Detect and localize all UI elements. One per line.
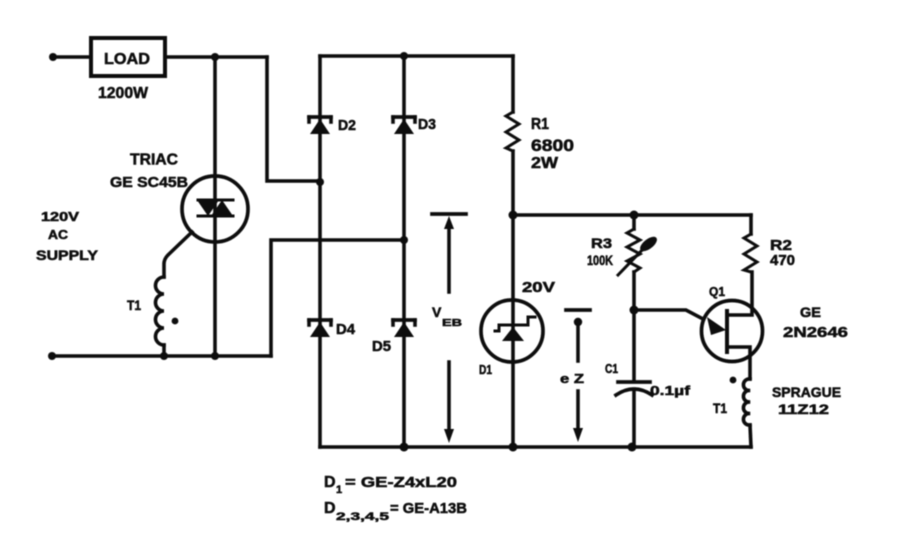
svg-text:= GE-A13B: = GE-A13B [390,500,467,517]
junction: R3 top [630,211,639,220]
wire: bottom DC- rail [320,445,751,449]
svg-text:2,3,4,5: 2,3,4,5 [336,511,389,523]
note: D2,3,4,5 = GE-A13B [324,500,467,523]
wire: DC+ rail [513,213,751,217]
wire: D2/D4 column [318,56,322,447]
wire: terminal to LOAD [53,55,91,59]
inductor T1 primary (pulse transformer) [743,379,750,425]
wire: D1 column [511,215,515,447]
svg-text:11Z12: 11Z12 [778,401,829,417]
wire: top rail of bridge [320,54,513,58]
svg-text:T1: T1 [127,297,141,313]
wire: D3/D5 column [402,56,406,447]
junction: bridge AC1 [316,178,324,186]
zener diode D1 (20V) [481,300,543,362]
junction: D1 bottom [509,443,518,452]
svg-text:R3: R3 [591,235,612,251]
svg-text:LOAD: LOAD [104,51,150,68]
wire: Q1 base-one lead to T1 [727,347,750,379]
svg-text:T1: T1 [713,400,727,416]
measurement arrow V_EB upper shaft with up arrowhead [444,216,454,292]
wire: R1 to DC+ node [511,151,515,215]
wire: triac gate lead [164,232,192,277]
wire: corner down to bridge AC1 [267,57,320,181]
svg-text:R2: R2 [770,238,792,254]
wire: triac main vertical [213,57,217,356]
junction: R1 / D1 node [509,211,518,220]
svg-text:120V: 120V [41,210,80,224]
wire: R3 column top [632,215,636,229]
svg-text:D1: D1 [479,363,492,377]
svg-text:470: 470 [770,253,795,269]
polarity dot T1 left [172,318,179,325]
svg-text:V: V [432,304,442,320]
svg-text:AC: AC [48,227,69,242]
potentiometer R3 100K [618,229,659,275]
junction: T1 bottom [160,352,168,360]
wire: Q1 base-two lead to R2 [727,272,752,315]
measurement arrow V_EB top bar [432,212,466,216]
wire: bridge AC2 to bottom rail [271,240,404,356]
wire: bottom supply rail [52,354,271,358]
diode D2 [309,117,331,134]
svg-text:D5: D5 [372,338,391,355]
terminal: AC supply top [49,53,57,61]
label V_EB [432,304,462,329]
svg-text:100K: 100K [587,252,613,268]
svg-text:D: D [324,500,336,517]
svg-text:GE SC45B: GE SC45B [110,174,188,191]
svg-text:Q1: Q1 [709,284,725,299]
wire: DC+ rail corner down to R2 [749,215,753,234]
wire: R3 to emitter node [632,272,636,310]
wire: C1 to bottom rail [632,390,636,447]
wire: R1 column top [511,56,515,112]
diode D5 [393,320,415,337]
wire: T1 primary to bottom rail [750,425,751,447]
measurement arrow V_EB lower shaft with down arrowhead [444,362,454,443]
svg-text:e Z: e Z [560,371,584,386]
svg-text:EB: EB [442,318,462,329]
svg-text:SPRAGUE: SPRAGUE [772,384,841,400]
svg-text:SUPPLY: SUPPLY [36,248,98,263]
svg-text:6800: 6800 [531,136,574,155]
measurement arrow e_Z upper shaft with dot [574,318,582,361]
junction: D3 top [400,52,408,60]
measurement arrow e_Z top bar [566,308,590,312]
wire: emitter node to Q1 [634,310,703,319]
measurement arrow e_Z lower shaft with down arrowhead [573,391,583,442]
note: D1 = GE-Z4xL20 [324,474,457,496]
junction: D5 bottom [400,443,409,452]
capacitor C1 0.1uf [616,382,652,395]
svg-text:C1: C1 [605,362,618,376]
svg-text:D4: D4 [336,321,356,338]
load LOAD 1200W box [91,38,165,76]
polarity dot T1 right [730,377,737,384]
junction: emitter node [630,306,639,315]
wire: T1 winding to bottom rail [162,345,166,356]
svg-text:1200W: 1200W [98,85,149,102]
inductor T1 (trigger winding) [156,277,165,345]
svg-text:0.1µf: 0.1µf [650,383,691,398]
svg-text:D: D [324,474,336,491]
triac GE SC45B [182,176,248,242]
junction: C1 bottom [628,443,637,452]
svg-text:D3: D3 [418,116,436,133]
resistor R2 470 [744,234,757,272]
svg-text:D2: D2 [338,117,356,134]
svg-text:= GE-Z4xL20: = GE-Z4xL20 [345,474,457,491]
diode D4 [309,320,331,337]
svg-text:GE: GE [800,304,821,320]
svg-text:2W: 2W [531,155,559,172]
junction: triac top [211,53,219,61]
junction: triac bottom [211,352,219,360]
svg-text:1: 1 [336,484,342,496]
wire: LOAD to corner [165,55,267,59]
diode D3 [393,117,415,134]
terminal: AC supply bottom [48,352,56,360]
svg-text:TRIAC: TRIAC [130,152,178,169]
svg-text:20V: 20V [522,280,555,296]
svg-text:2N2646: 2N2646 [783,324,848,341]
unijunction transistor Q1 GE 2N2646 [702,301,763,362]
svg-text:R1: R1 [531,116,549,133]
junction: bridge AC2 [400,236,408,244]
wire: C1 column [632,310,636,381]
resistor R1 [506,112,519,151]
